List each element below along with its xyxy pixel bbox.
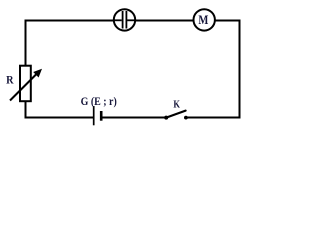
svg-text:G (E ; r): G (E ; r): [81, 94, 117, 108]
battery short plate: [100, 111, 103, 121]
wire left upper: [25, 20, 27, 67]
motor circle: [194, 9, 215, 30]
battery long plate: [93, 106, 95, 125]
wire right vertical: [239, 20, 241, 119]
svg-text:M: M: [198, 12, 208, 27]
wire bottom from battery to switch: [102, 117, 166, 119]
electrolyser right wire stub: [127, 19, 136, 21]
svg-text:K: K: [173, 100, 180, 111]
switch right contact dot: [184, 116, 188, 120]
wire top between electrolyser and motor: [134, 20, 194, 22]
switch lever: [166, 111, 185, 118]
electrolyser left plate: [122, 11, 124, 29]
switch left contact dot: [164, 116, 168, 120]
svg-text:R: R: [6, 75, 14, 87]
rheostat arrow shaft: [10, 72, 39, 101]
wire top from left corner to electrolyser: [25, 20, 116, 22]
electrolyser left wire stub: [113, 19, 122, 21]
wire bottom from switch to right corner: [186, 117, 241, 119]
electrolyser right plate: [125, 11, 127, 29]
wire left lower: [25, 101, 27, 119]
electrolyser circle X1: [114, 9, 135, 30]
rheostat R box: [20, 66, 31, 102]
wire bottom from left corner to battery: [25, 117, 94, 119]
rheostat arrow head: [33, 69, 42, 78]
wire top from motor to right corner: [214, 20, 241, 22]
